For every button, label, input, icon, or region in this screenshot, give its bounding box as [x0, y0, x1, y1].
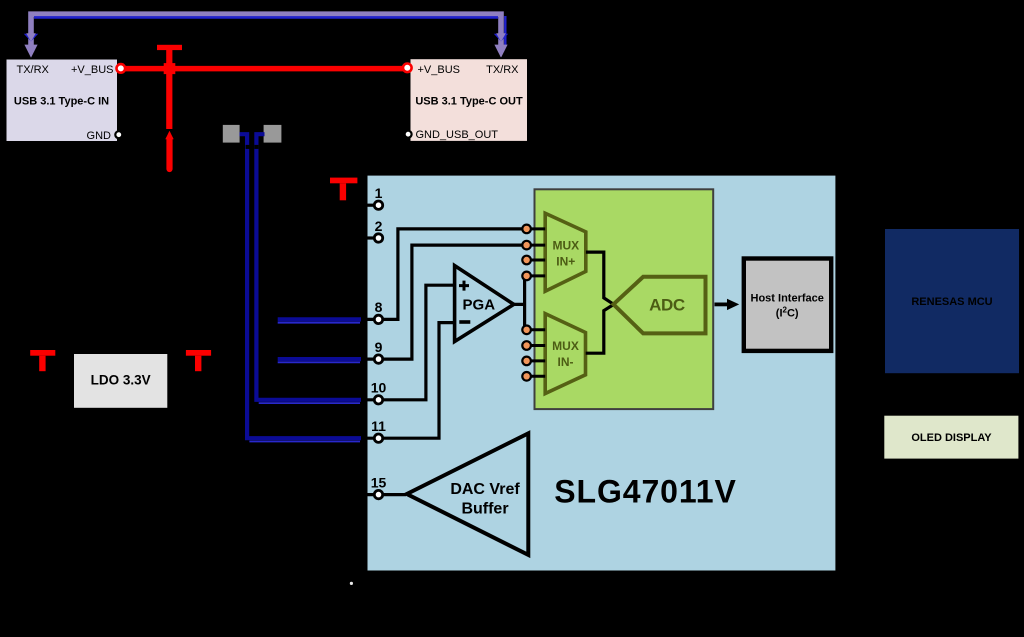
pin 8 [374, 315, 382, 323]
wire MUX IN+ output to ADC [586, 252, 614, 304]
svg-text:USB 3.1 Type-C IN: USB 3.1 Type-C IN [14, 96, 109, 108]
svg-text:ADC: ADC [649, 295, 685, 314]
svg-text:GND: GND [87, 130, 112, 142]
wire TX/RX blue drop at USB OUT [504, 16, 506, 45]
wire MUX IN+ inputs stubs [527, 229, 545, 276]
pin 15 [374, 490, 382, 498]
svg-text:8: 8 [375, 299, 383, 315]
node MUX IN- input dots [522, 326, 531, 335]
svg-text:MUX: MUX [552, 339, 579, 353]
svg-text:Host Interface: Host Interface [751, 292, 824, 304]
mux MUX IN+ [545, 213, 586, 291]
arrow TX/RX into USB OUT (purple head) [494, 45, 507, 58]
wire TX/RX bus (blue) [34, 16, 498, 19]
block RENESAS MCU [885, 229, 1019, 373]
arrow TX/RX into USB IN (blue head) [24, 34, 38, 42]
node stray dot [350, 582, 353, 585]
wire pin 15 to buffer [367, 493, 406, 496]
svg-text:LDO 3.3V: LDO 3.3V [91, 373, 151, 388]
power flag LDO input (red T) [30, 350, 55, 356]
arrow TX/RX into USB IN (purple head) [24, 45, 37, 58]
svg-text:1: 1 [375, 185, 383, 201]
wire sense left pad to pin 11 (navy) [240, 134, 362, 438]
wire sense stub to pin 9 (navy) [278, 357, 361, 361]
block Host Interface (I2C) [744, 259, 831, 351]
svg-text:USB 3.1 Type-C OUT: USB 3.1 Type-C OUT [415, 96, 523, 108]
junction dot on left sense wire [246, 145, 250, 149]
arrow current sense (red, up) [165, 131, 173, 139]
chip SLG47011V body [366, 174, 837, 572]
svg-text:SLG47011V: SLG47011V [554, 474, 736, 510]
svg-text:PGA: PGA [463, 297, 496, 314]
svg-text:IN-: IN- [558, 355, 574, 369]
mux MUX IN- [545, 314, 585, 394]
shunt resistor pad right [264, 125, 282, 143]
svg-text:RENESAS MCU: RENESAS MCU [911, 296, 992, 308]
svg-text:OLED DISPLAY: OLED DISPLAY [911, 432, 992, 444]
pin +V_BUS of USB IN [117, 64, 126, 73]
power flag VBUS (red T) [157, 45, 182, 50]
block LDO 3.3V [74, 354, 167, 408]
wire pin 8 to MUX IN+ in0 [367, 229, 526, 320]
pin GND_USB_OUT of USB OUT [405, 131, 412, 138]
wire PGA output to MUX inputs [514, 276, 525, 330]
wire MUX IN- inputs stubs [527, 330, 545, 377]
wire +V_BUS rail (red) [124, 66, 405, 72]
svg-text:9: 9 [375, 339, 383, 355]
arrow ADC block to Host Interface [715, 302, 728, 306]
pin 11 [374, 434, 382, 442]
pin GND of USB IN [115, 131, 122, 138]
block ADC subsystem (green) [535, 189, 714, 409]
svg-text:Buffer: Buffer [461, 501, 508, 518]
wire pin 9 to MUX IN+ in1 [367, 245, 526, 359]
node MUX IN+ input dots [522, 225, 531, 234]
buffer DAC Vref Buffer [407, 433, 529, 555]
block OLED DISPLAY [884, 416, 1018, 459]
shunt resistor pad left [223, 125, 240, 143]
svg-text:15: 15 [371, 474, 387, 490]
pin 2 [367, 236, 374, 239]
wire pin 10 to PGA + input [367, 285, 454, 400]
svg-text:11: 11 [371, 418, 386, 434]
block USB 3.1 Type-C OUT [410, 58, 529, 142]
svg-text:(I2C): (I2C) [776, 306, 799, 320]
wire MUX IN- output to ADC [586, 305, 614, 354]
block USB 3.1 Type-C IN [6, 59, 119, 143]
op-amp PGA [455, 266, 514, 342]
svg-text:IN+: IN+ [556, 255, 575, 269]
junction +V_BUS node [164, 63, 176, 74]
svg-text:DAC Vref: DAC Vref [450, 481, 520, 498]
wire pin 11 to PGA - input [367, 323, 454, 439]
arrow TX/RX into USB OUT (purple chevron) [496, 33, 506, 42]
pin 9 [374, 355, 382, 363]
wire TX/RX bus (purple) [31, 14, 501, 46]
svg-text:GND_USB_OUT: GND_USB_OUT [416, 129, 499, 141]
power flag LDO output (red T) [186, 350, 211, 356]
svg-text:MUX: MUX [552, 239, 579, 253]
svg-text:2: 2 [375, 218, 383, 234]
pin 1 [367, 204, 374, 207]
wire sense right pad to pin 10 (navy) [256, 134, 361, 400]
junction dot on right sense wire [254, 145, 258, 149]
arrow TX/RX into USB IN (purple chevron) [26, 33, 36, 42]
svg-text:10: 10 [371, 380, 387, 396]
svg-text:+V_BUS: +V_BUS [71, 64, 114, 76]
adc ADC [613, 277, 705, 334]
pin 10 [374, 396, 382, 404]
power flag VDD (red T near pin 1) [330, 178, 357, 184]
svg-text:TX/RX: TX/RX [17, 64, 50, 76]
svg-text:+V_BUS: +V_BUS [418, 64, 461, 76]
svg-text:TX/RX: TX/RX [486, 64, 519, 76]
wire sense stub to pin 8 (navy) [278, 317, 361, 321]
pin +V_BUS of USB OUT [403, 64, 412, 73]
arrow TX/RX into USB OUT (blue head) [494, 34, 508, 42]
wire sense highlight lines (bright blue) [278, 322, 360, 324]
